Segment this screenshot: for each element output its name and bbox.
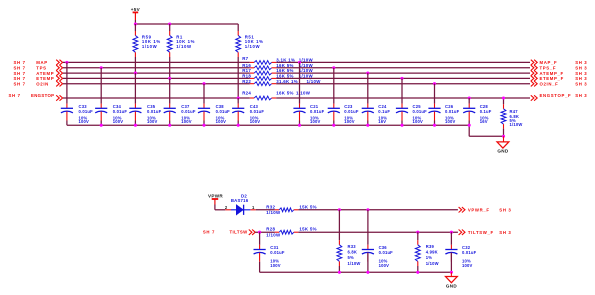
svg-text:4.99K: 4.99K bbox=[426, 250, 438, 255]
wire C21 column bbox=[299, 62, 301, 108]
svg-text:16V: 16V bbox=[378, 119, 386, 124]
svg-text:SH 3: SH 3 bbox=[575, 81, 587, 86]
wire C25 column bbox=[401, 78, 403, 108]
wire R51 to ENGSTOP bbox=[237, 57, 239, 98]
svg-text:1/10W: 1/10W bbox=[348, 261, 361, 266]
node VPWR_F/R33 junction bbox=[338, 208, 341, 211]
wire R39 column bbox=[417, 232, 419, 240]
capacitor C21 0.01uF bbox=[293, 104, 324, 124]
svg-text:1/10W: 1/10W bbox=[299, 58, 314, 63]
svg-text:1/10W: 1/10W bbox=[426, 261, 439, 266]
svg-text:GND: GND bbox=[446, 284, 457, 289]
wire VPWR to D2 bbox=[215, 205, 225, 210]
node TILTSW/C31 junction bbox=[258, 231, 261, 234]
resistor R32 15K series bbox=[266, 204, 317, 215]
resistor R1 10K pull-up bbox=[167, 24, 195, 57]
svg-text:100V: 100V bbox=[413, 119, 424, 124]
svg-text:TPS_F: TPS_F bbox=[540, 66, 557, 71]
svg-text:0.1uF: 0.1uF bbox=[480, 109, 492, 114]
diode D2 BAS716 bbox=[225, 193, 256, 215]
resistor R39 4.99K pull-down bbox=[415, 240, 438, 266]
svg-text:ATEMP: ATEMP bbox=[36, 71, 54, 76]
off-page connector ATEMP input SH 7 bbox=[14, 70, 63, 75]
ground GND lower bbox=[446, 272, 458, 288]
svg-text:100V: 100V bbox=[250, 119, 261, 124]
wire ATEMP_F net segment bbox=[276, 72, 530, 74]
svg-text:100V: 100V bbox=[147, 119, 158, 124]
wire C37 column bbox=[169, 78, 171, 108]
wire C26 to ground rail bbox=[434, 112, 436, 126]
node MAP_F/C21 junction bbox=[298, 61, 301, 64]
svg-text:1/10W: 1/10W bbox=[299, 74, 314, 79]
svg-text:1/10W: 1/10W bbox=[510, 122, 523, 127]
svg-text:0.01uF: 0.01uF bbox=[379, 250, 394, 255]
capacitor C38 0.01uF bbox=[198, 104, 230, 124]
off-page connector TILTSW_F output SH 3 bbox=[459, 230, 512, 236]
svg-text:MAP: MAP bbox=[36, 60, 48, 65]
svg-text:VPWR_F: VPWR_F bbox=[468, 208, 490, 213]
node C43 ground junction bbox=[237, 124, 240, 127]
wire R33 to ground rail bbox=[338, 266, 340, 272]
svg-text:0.01uF: 0.01uF bbox=[113, 109, 128, 114]
resistor R59 10K pull-up bbox=[133, 24, 161, 57]
node C36 ground junction bbox=[366, 271, 369, 274]
wire TILTSW_F net bbox=[298, 231, 458, 233]
node TILTSW_F/C32 junction bbox=[450, 231, 453, 234]
off-page connector O2IN_F output SH 3 bbox=[531, 81, 588, 86]
node R39 ground junction bbox=[416, 271, 419, 274]
wire D2 to R32 bbox=[256, 209, 275, 211]
svg-text:1/10W: 1/10W bbox=[307, 79, 322, 84]
wire C24 column bbox=[367, 73, 369, 108]
svg-text:+5V: +5V bbox=[131, 7, 141, 12]
svg-text:0.01uF: 0.01uF bbox=[147, 109, 162, 114]
svg-text:1/10W: 1/10W bbox=[299, 63, 314, 68]
wire TPS_F net segment bbox=[276, 67, 530, 69]
svg-text:100V: 100V bbox=[181, 119, 192, 124]
wire TILTSW net bbox=[255, 231, 275, 233]
svg-text:SH 7: SH 7 bbox=[14, 66, 26, 71]
capacitor C35 0.01uF bbox=[129, 104, 161, 124]
node ATEMP_F/C24 junction bbox=[366, 72, 369, 75]
wire ground rail lower bbox=[260, 271, 452, 273]
svg-text:SH 3: SH 3 bbox=[575, 71, 587, 76]
svg-text:R24: R24 bbox=[242, 91, 251, 96]
capacitor C26 0.01uF bbox=[428, 104, 459, 124]
node ENGSTOP_F/C28 junction bbox=[468, 96, 471, 99]
svg-text:ATEMP_F: ATEMP_F bbox=[540, 71, 564, 76]
node +5V/R1 junction bbox=[168, 22, 171, 25]
capacitor C25 0.01uF bbox=[396, 104, 427, 124]
wire C25 to ground rail bbox=[401, 112, 403, 126]
svg-text:ETEMP_F: ETEMP_F bbox=[540, 76, 564, 81]
wire C35 to ground rail bbox=[134, 112, 136, 126]
wire MAP net segment bbox=[63, 61, 250, 63]
svg-text:0.01uF: 0.01uF bbox=[462, 250, 477, 255]
svg-text:C31: C31 bbox=[270, 245, 279, 250]
svg-text:100V: 100V bbox=[344, 119, 355, 124]
wire R1 to ETEMP bbox=[169, 57, 171, 78]
wire R39 to ground rail bbox=[417, 266, 419, 272]
svg-text:100V: 100V bbox=[310, 119, 321, 124]
off-page connector ENGSTOP_F output SH 3 bbox=[531, 93, 588, 101]
resistor R7 series 3.1K 1% bbox=[242, 56, 313, 64]
svg-text:SH 3: SH 3 bbox=[575, 76, 587, 81]
wire C28/R47 ground link bbox=[469, 135, 503, 137]
power VPWR bbox=[208, 194, 223, 205]
node ETEMP/C37 junction bbox=[168, 77, 171, 80]
capacitor C31 0.01uF bbox=[254, 245, 285, 268]
wire C26 column bbox=[434, 84, 436, 109]
capacitor C43 0.01uF bbox=[232, 104, 264, 124]
svg-text:0.01uF: 0.01uF bbox=[181, 109, 196, 114]
wire ENGSTOP net segment bbox=[63, 97, 250, 99]
resistor R47 6.8K pull-down bbox=[501, 98, 522, 136]
svg-text:100V: 100V bbox=[379, 263, 390, 268]
svg-text:R16: R16 bbox=[242, 63, 251, 68]
svg-text:TILTSW_F: TILTSW_F bbox=[468, 230, 494, 235]
off-page connector TPS_F output SH 3 bbox=[531, 65, 588, 70]
svg-text:SH 7: SH 7 bbox=[14, 81, 26, 86]
svg-text:16K 5%: 16K 5% bbox=[276, 68, 293, 73]
capacitor C23 0.01uF bbox=[328, 104, 359, 124]
svg-text:6.8K: 6.8K bbox=[348, 250, 358, 255]
node TILTSW_F/R39 junction bbox=[416, 231, 419, 234]
wire C43 column bbox=[237, 98, 239, 108]
svg-text:R7: R7 bbox=[242, 56, 248, 61]
wire C37 to ground rail bbox=[169, 112, 171, 126]
wire C36 to ground rail bbox=[367, 253, 369, 273]
svg-text:GND: GND bbox=[497, 149, 508, 154]
off-page connector ENGSTOP input SH 7 bbox=[9, 93, 63, 101]
wire C36 column bbox=[367, 210, 369, 245]
svg-text:3.1K 1%: 3.1K 1% bbox=[276, 58, 295, 63]
capacitor C33 0.01uF bbox=[61, 104, 93, 124]
svg-text:0.1uF: 0.1uF bbox=[378, 109, 390, 114]
node ATEMP/C35 junction bbox=[134, 72, 137, 75]
svg-text:SH 7: SH 7 bbox=[14, 71, 26, 76]
svg-text:C32: C32 bbox=[462, 245, 471, 250]
svg-text:O2IN: O2IN bbox=[36, 81, 49, 86]
svg-text:16V: 16V bbox=[480, 119, 488, 124]
wire +5V rail bbox=[135, 20, 238, 24]
off-page connector O2IN input SH 7 bbox=[14, 81, 63, 86]
wire TPS net segment bbox=[63, 67, 250, 69]
wire C38 column bbox=[203, 84, 205, 109]
wire C34 column bbox=[100, 68, 102, 109]
svg-text:TILTSW: TILTSW bbox=[230, 230, 249, 235]
node C21 ground junction bbox=[298, 124, 301, 127]
off-page connector TILTSW input SH 7 bbox=[203, 230, 255, 235]
wire C35 column bbox=[134, 73, 136, 108]
wire C24 to ground rail bbox=[367, 112, 369, 126]
wire O2IN_F net segment bbox=[276, 83, 530, 85]
node +5V/R59 junction bbox=[134, 22, 137, 25]
node C25 ground junction bbox=[400, 124, 403, 127]
resistor R24 series 16K 5% bbox=[242, 91, 311, 100]
wire ground rail upper bbox=[67, 124, 469, 126]
svg-text:0.01uF: 0.01uF bbox=[79, 109, 94, 114]
resistor R33 6.8K pull-down bbox=[337, 240, 360, 266]
svg-text:C36: C36 bbox=[379, 245, 388, 250]
wire R33 column bbox=[338, 210, 340, 240]
svg-text:1%: 1% bbox=[426, 255, 433, 260]
svg-text:SH 7: SH 7 bbox=[203, 230, 215, 235]
node C23 ground junction bbox=[332, 124, 335, 127]
wire ETEMP_F net segment bbox=[276, 77, 530, 79]
resistor R28 15K series bbox=[266, 227, 317, 238]
svg-text:100V: 100V bbox=[113, 119, 124, 124]
node C26 ground junction bbox=[433, 124, 436, 127]
svg-text:R33: R33 bbox=[348, 244, 357, 249]
node C37 ground junction bbox=[168, 124, 171, 127]
node ETEMP_F/C25 junction bbox=[400, 77, 403, 80]
svg-text:1/10W: 1/10W bbox=[266, 210, 281, 215]
resistor R18 series 16K 5% bbox=[242, 74, 313, 81]
svg-text:ENGSTOP_F: ENGSTOP_F bbox=[540, 93, 572, 98]
capacitor C34 0.01uF bbox=[95, 104, 127, 124]
capacitor C36 0.01uF bbox=[362, 245, 393, 268]
wire C32 to ground rail bbox=[450, 253, 452, 273]
svg-text:0.01uF: 0.01uF bbox=[413, 109, 428, 114]
svg-text:0.01uF: 0.01uF bbox=[310, 109, 325, 114]
svg-text:R28: R28 bbox=[266, 227, 275, 232]
capacitor C32 0.01uF bbox=[445, 245, 476, 268]
wire C34 to ground rail bbox=[100, 112, 102, 126]
svg-text:1/10W: 1/10W bbox=[245, 44, 261, 49]
off-page connector ATEMP_F output SH 3 bbox=[531, 70, 588, 75]
wire O2IN net segment bbox=[63, 83, 250, 85]
svg-text:100V: 100V bbox=[462, 263, 473, 268]
svg-text:100V: 100V bbox=[270, 263, 281, 268]
svg-text:TPS: TPS bbox=[36, 66, 46, 71]
capacitor C28 0.1uF bbox=[463, 104, 492, 124]
off-page connector TPS input SH 7 bbox=[14, 65, 63, 70]
wire ENGSTOP_F net segment bbox=[276, 97, 530, 99]
svg-text:R22: R22 bbox=[242, 79, 251, 84]
wire C33 to ground rail bbox=[66, 112, 68, 126]
svg-text:0.01uF: 0.01uF bbox=[445, 109, 460, 114]
svg-text:1/10W: 1/10W bbox=[176, 44, 192, 49]
svg-text:SH 7: SH 7 bbox=[14, 76, 26, 81]
svg-text:100V: 100V bbox=[445, 119, 456, 124]
wire C43 to ground rail bbox=[237, 112, 239, 126]
node O2IN/C38 junction bbox=[202, 82, 205, 85]
svg-text:16K 5%: 16K 5% bbox=[276, 74, 293, 79]
svg-text:5%: 5% bbox=[348, 255, 355, 260]
svg-text:1/10W: 1/10W bbox=[266, 233, 281, 238]
resistor R16 series 16K 5% bbox=[242, 63, 313, 70]
svg-text:R32: R32 bbox=[266, 204, 275, 209]
svg-text:15K 5%: 15K 5% bbox=[299, 204, 316, 209]
svg-text:SH 3: SH 3 bbox=[499, 208, 511, 213]
node TPS_F/C23 junction bbox=[332, 66, 335, 69]
svg-text:100V: 100V bbox=[216, 119, 227, 124]
wire C23 column bbox=[333, 68, 335, 109]
wire VPWR_F net bbox=[298, 209, 458, 211]
node C24 ground junction bbox=[366, 124, 369, 127]
resistor R51 10K pull-up bbox=[236, 24, 264, 57]
svg-text:SH 3: SH 3 bbox=[575, 66, 587, 71]
wire R59 to ATEMP bbox=[134, 57, 136, 73]
wire C31 column bbox=[259, 232, 261, 245]
svg-text:100V: 100V bbox=[79, 119, 90, 124]
svg-text:ETEMP: ETEMP bbox=[36, 76, 54, 81]
off-page connector MAP input SH 7 bbox=[14, 60, 63, 65]
svg-text:16K 5%: 16K 5% bbox=[276, 63, 293, 68]
svg-text:VPWR: VPWR bbox=[208, 194, 223, 199]
svg-text:O2IN_F: O2IN_F bbox=[540, 81, 559, 86]
node R47/GND junction bbox=[502, 135, 505, 138]
off-page connector ETEMP input SH 7 bbox=[14, 76, 63, 81]
wire C32 column bbox=[450, 232, 452, 245]
node MAP/C33 junction bbox=[65, 61, 68, 64]
wire C38 to ground rail bbox=[203, 112, 205, 126]
node C34 ground junction bbox=[100, 124, 103, 127]
off-page connector MAP_F output SH 3 bbox=[531, 60, 588, 65]
svg-text:R39: R39 bbox=[426, 244, 435, 249]
node C28 ground junction bbox=[468, 124, 471, 127]
svg-text:0.01uF: 0.01uF bbox=[216, 109, 231, 114]
node R47 junction on ENGSTOP_F bbox=[502, 96, 505, 99]
svg-text:1/10W: 1/10W bbox=[296, 91, 311, 96]
resistor R22 series 31.6K 1% bbox=[242, 79, 321, 86]
wire MAP_F net segment bbox=[276, 61, 530, 63]
node ENGSTOP/C43 junction bbox=[237, 96, 240, 99]
svg-text:1/10W: 1/10W bbox=[142, 44, 158, 49]
svg-text:16K 5%: 16K 5% bbox=[276, 91, 293, 96]
svg-text:R17: R17 bbox=[242, 68, 251, 73]
wire ETEMP net segment bbox=[63, 77, 250, 79]
wire C33 column bbox=[66, 62, 68, 108]
wire C23 to ground rail bbox=[333, 112, 335, 126]
off-page connector ETEMP_F output SH 3 bbox=[531, 76, 588, 81]
svg-text:SH 7: SH 7 bbox=[9, 93, 21, 98]
node R33 ground junction bbox=[338, 271, 341, 274]
node TPS/C34 junction bbox=[100, 66, 103, 69]
wire C21 to ground rail bbox=[299, 112, 301, 126]
wire ATEMP net segment bbox=[63, 72, 250, 74]
svg-text:31.6K 1%: 31.6K 1% bbox=[276, 79, 298, 84]
svg-text:SH 3: SH 3 bbox=[499, 230, 511, 235]
svg-text:0.01uF: 0.01uF bbox=[250, 109, 265, 114]
svg-text:SH 3: SH 3 bbox=[575, 60, 587, 65]
resistor R17 series 16K 5% bbox=[242, 68, 313, 75]
svg-text:R18: R18 bbox=[242, 74, 251, 79]
node C35 ground junction bbox=[134, 124, 137, 127]
node O2IN_F/C26 junction bbox=[433, 82, 436, 85]
svg-text:MAP_F: MAP_F bbox=[540, 60, 558, 65]
svg-text:SH 3: SH 3 bbox=[575, 93, 587, 98]
svg-text:SH 7: SH 7 bbox=[14, 60, 26, 65]
svg-text:15K 5%: 15K 5% bbox=[299, 227, 316, 232]
svg-text:BAS716: BAS716 bbox=[231, 198, 249, 203]
node C32/GND junction bbox=[450, 271, 453, 274]
capacitor C37 0.01uF bbox=[164, 104, 196, 124]
off-page connector VPWR_F output SH 3 bbox=[459, 207, 512, 213]
svg-text:0.01uF: 0.01uF bbox=[344, 109, 359, 114]
power +5V bbox=[131, 7, 141, 20]
wire C31 to ground rail bbox=[259, 262, 261, 273]
ground GND upper bbox=[497, 136, 509, 153]
svg-text:ENGSTOP: ENGSTOP bbox=[31, 93, 54, 98]
wire C28 to ground rail bbox=[468, 112, 470, 137]
svg-text:1/10W: 1/10W bbox=[299, 68, 314, 73]
svg-text:0.01uF: 0.01uF bbox=[270, 250, 285, 255]
wire C28 column bbox=[468, 98, 470, 108]
node C38 ground junction bbox=[202, 124, 205, 127]
capacitor C24 0.1uF bbox=[362, 104, 391, 124]
node VPWR_F/C36 junction bbox=[366, 208, 369, 211]
